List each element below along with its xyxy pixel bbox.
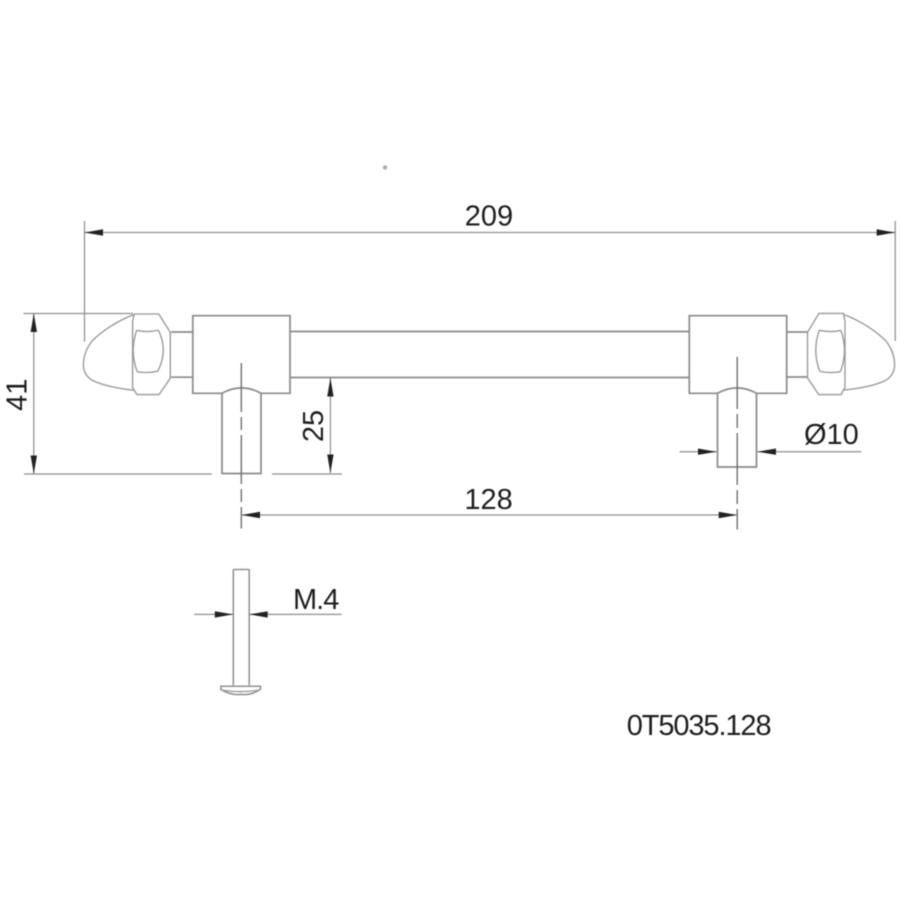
left post [222,393,261,473]
bar (center cylinder) [290,332,689,378]
dim 128 line [242,514,738,516]
dim dia10 left line [680,451,717,453]
left neck [171,332,193,377]
dim M4 left line [194,613,233,615]
svg-text:209: 209 [465,201,513,233]
arrow 128 left [242,512,261,518]
right mounting block [689,316,786,394]
arrow dia10 left [698,449,717,455]
screw shaft [233,570,249,686]
dim dia10 right line [758,451,862,453]
svg-text:128: 128 [464,484,512,516]
svg-text:25: 25 [298,410,330,442]
svg-text:M.4: M.4 [293,584,339,616]
right post [718,393,757,467]
right neck [787,332,808,377]
dim 209 line [85,232,896,234]
right post centerline [736,357,738,530]
dim 41 line [33,314,35,475]
dim 25 line [329,378,331,473]
arrow 25 top [327,378,333,397]
screw head [221,686,261,694]
arrow 209 left [85,229,104,235]
arrow M4 right [249,611,268,617]
dim 41 top extension [24,313,134,315]
left post centerline [240,363,242,529]
svg-text:Ø10: Ø10 [804,419,859,451]
left finial bell [83,314,134,390]
dim M4 right line [249,613,342,615]
svg-text:0T5035.128: 0T5035.128 [627,710,771,742]
right finial hex nut [808,313,846,394]
left mounting block [193,316,290,394]
arrow 41 bottom [31,456,37,475]
arrow 128 right [719,512,738,518]
arrow M4 left [215,611,234,617]
left finial hex nut [133,314,171,395]
dim 209 right extension [894,221,896,341]
arrow 209 right [877,229,896,235]
right finial bell [843,314,895,390]
svg-text:41: 41 [2,379,34,411]
dim 209 left extension [84,221,86,342]
dim 41/25 bottom extension [24,473,212,475]
smudge dot [383,165,387,169]
arrow 41 top [31,314,37,333]
arrow dia10 right [758,449,777,455]
arrow 25 bottom [327,455,333,474]
